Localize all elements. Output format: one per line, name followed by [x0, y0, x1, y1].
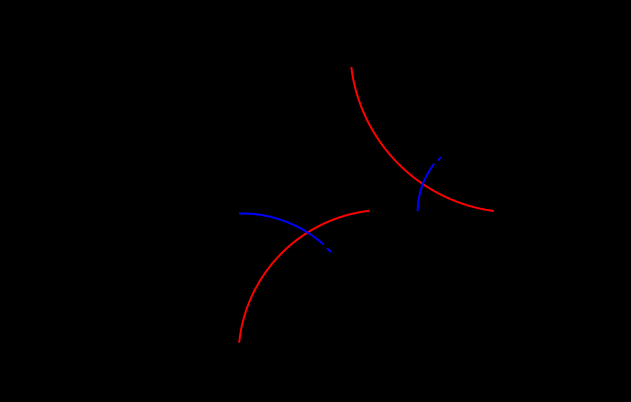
blue arc B solid (crosses red arc B): [239, 213, 324, 244]
red arc B (lower-left curve): [239, 211, 369, 343]
blue arc B dash: [327, 248, 331, 252]
red arc A (upper-right curve): [351, 67, 494, 211]
blue arc A solid (crosses red arc A): [418, 164, 435, 211]
blue arc A dash: [438, 157, 441, 160]
